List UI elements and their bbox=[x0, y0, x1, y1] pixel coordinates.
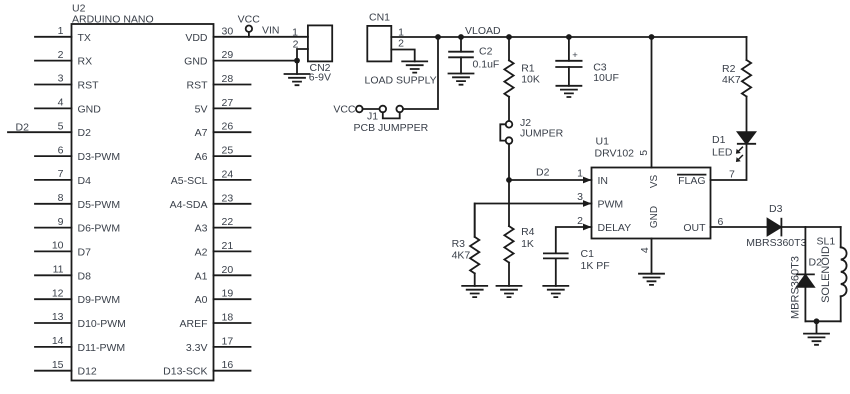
wire pin 3 RST bbox=[35, 73, 99, 92]
svg-text:VCC: VCC bbox=[333, 104, 356, 116]
svg-text:0.1uF: 0.1uF bbox=[473, 59, 500, 71]
IC U2 ARDUINO NANO bbox=[72, 3, 214, 381]
diode D2 MBRS360T3 flyback bbox=[790, 227, 823, 321]
svg-text:U1: U1 bbox=[596, 136, 610, 148]
svg-text:RX: RX bbox=[78, 56, 93, 68]
ground below R4 bbox=[497, 286, 522, 297]
svg-text:A7: A7 bbox=[195, 127, 208, 139]
svg-text:3: 3 bbox=[58, 73, 64, 85]
wire pin 5 D2 bbox=[8, 120, 91, 139]
svg-text:D2: D2 bbox=[536, 167, 550, 179]
wire pin 7 D4 bbox=[35, 168, 91, 187]
svg-text:23: 23 bbox=[222, 192, 234, 204]
IC U1 DRV102 bbox=[592, 136, 711, 239]
svg-text:JUMPER: JUMPER bbox=[520, 128, 564, 140]
svg-text:LOAD SUPPLY: LOAD SUPPLY bbox=[365, 75, 437, 87]
ground below R3 bbox=[462, 286, 487, 297]
svg-text:5: 5 bbox=[58, 120, 64, 132]
svg-text:D8: D8 bbox=[78, 270, 92, 282]
junction R1 on VLOAD bbox=[506, 34, 512, 40]
junction SL1 bottom to ground bbox=[814, 318, 820, 324]
wire U1 OUT pin 6 to D3 bbox=[711, 216, 768, 228]
svg-text:DELAY: DELAY bbox=[598, 222, 632, 234]
capacitor C1 1K PF bbox=[544, 248, 610, 286]
solenoid SL1 bbox=[817, 227, 847, 321]
svg-text:15: 15 bbox=[52, 359, 64, 371]
wire R2 to D1 bbox=[746, 97, 748, 133]
svg-text:GND: GND bbox=[649, 206, 660, 228]
svg-text:4: 4 bbox=[639, 247, 651, 253]
svg-text:A2: A2 bbox=[195, 246, 208, 258]
wire pin 22 A3 bbox=[195, 216, 251, 235]
wire pin 9 D6-PWM bbox=[35, 216, 120, 235]
junction C2 on VLOAD bbox=[458, 34, 464, 40]
resistor R2 4K7 bbox=[722, 60, 751, 97]
svg-text:RST: RST bbox=[78, 80, 100, 92]
svg-text:13: 13 bbox=[52, 311, 64, 323]
svg-text:10UF: 10UF bbox=[593, 72, 619, 84]
svg-text:D1: D1 bbox=[712, 134, 726, 146]
svg-text:12: 12 bbox=[52, 287, 64, 299]
svg-text:2: 2 bbox=[577, 215, 583, 227]
LED D1 bbox=[712, 132, 755, 162]
junction C3 on VLOAD bbox=[566, 34, 572, 40]
resistor R3 4K7 bbox=[452, 204, 480, 286]
wire pin 16 D13-SCK bbox=[163, 359, 250, 378]
svg-text:24: 24 bbox=[222, 168, 234, 180]
svg-text:18: 18 bbox=[222, 312, 234, 324]
wire pin 13 D10-PWM bbox=[35, 311, 126, 330]
svg-text:29: 29 bbox=[222, 49, 234, 61]
ground below C3 bbox=[556, 86, 581, 97]
wire pin 15 D12 bbox=[35, 359, 97, 378]
svg-text:PCB JUMPPER: PCB JUMPPER bbox=[354, 122, 429, 134]
wire pin 19 A0 bbox=[195, 288, 251, 307]
svg-text:1: 1 bbox=[292, 27, 298, 39]
ground below C2 bbox=[449, 74, 474, 85]
svg-text:FLAG: FLAG bbox=[678, 175, 705, 187]
wire D3 to SL1 bbox=[781, 226, 840, 228]
svg-text:OUT: OUT bbox=[683, 222, 706, 234]
svg-text:A4-SDA: A4-SDA bbox=[170, 199, 208, 211]
wire DELAY net to U1 pin 2 bbox=[556, 215, 592, 253]
svg-text:VLOAD: VLOAD bbox=[465, 25, 501, 37]
svg-text:17: 17 bbox=[222, 335, 234, 347]
svg-text:D2: D2 bbox=[16, 122, 30, 134]
svg-text:1: 1 bbox=[577, 168, 583, 180]
capacitor C3 10UF polarized bbox=[556, 37, 619, 86]
svg-text:1K PF: 1K PF bbox=[581, 260, 610, 272]
svg-text:R2: R2 bbox=[722, 63, 736, 75]
ground below CN2 bbox=[285, 61, 310, 86]
ground below C1 bbox=[543, 286, 568, 297]
svg-text:19: 19 bbox=[222, 288, 234, 300]
wire pin 12 D9-PWM bbox=[35, 287, 120, 306]
wire D1 to U1 FLAG pin 7 bbox=[711, 144, 747, 181]
svg-text:SL1: SL1 bbox=[817, 236, 836, 248]
svg-text:27: 27 bbox=[222, 97, 234, 109]
svg-text:MBRS360T3: MBRS360T3 bbox=[746, 237, 806, 249]
wire VIN net: pin30 VDD to CN2 pin1 bbox=[185, 25, 308, 44]
svg-text:30: 30 bbox=[222, 25, 234, 37]
svg-text:D3: D3 bbox=[769, 203, 783, 215]
svg-text:7: 7 bbox=[729, 169, 735, 181]
wire SL1 bottom bbox=[805, 320, 840, 322]
connector CN1 LOAD SUPPLY bbox=[365, 12, 437, 87]
svg-text:D4: D4 bbox=[78, 175, 92, 187]
wire pin 21 A2 bbox=[195, 240, 251, 259]
svg-text:7: 7 bbox=[58, 168, 64, 180]
wire pin 27 5V bbox=[195, 97, 251, 116]
power VCC symbol at pin30 bbox=[238, 14, 261, 37]
wire pin 26 A7 bbox=[195, 121, 251, 140]
wire U1 VS pin 5 to VLOAD bbox=[638, 37, 652, 168]
svg-text:CN1: CN1 bbox=[369, 12, 390, 24]
svg-text:6-9V: 6-9V bbox=[309, 72, 331, 84]
svg-text:D12: D12 bbox=[78, 366, 97, 378]
svg-text:GND: GND bbox=[184, 56, 208, 68]
svg-text:A3: A3 bbox=[195, 223, 208, 235]
svg-text:D7: D7 bbox=[78, 246, 92, 258]
wire pin 25 A6 bbox=[195, 145, 251, 164]
wire pin 17 3.3V bbox=[186, 335, 251, 354]
junction U1 VS on VLOAD bbox=[649, 34, 655, 40]
svg-text:5V: 5V bbox=[195, 103, 208, 115]
junction J1 riser on VLOAD bbox=[435, 34, 441, 40]
ground below CN1 bbox=[402, 61, 427, 72]
svg-text:RST: RST bbox=[187, 80, 209, 92]
svg-text:1K: 1K bbox=[521, 238, 534, 250]
wire pin 14 D11-PWM bbox=[35, 335, 125, 354]
svg-text:TX: TX bbox=[78, 32, 91, 44]
svg-text:D5-PWM: D5-PWM bbox=[78, 199, 121, 211]
svg-text:D6-PWM: D6-PWM bbox=[78, 223, 121, 235]
svg-text:D9-PWM: D9-PWM bbox=[78, 294, 121, 306]
svg-text:22: 22 bbox=[222, 216, 234, 228]
diode D3 MBRS360T3 bbox=[746, 203, 806, 249]
wire pin 20 A1 bbox=[195, 264, 251, 283]
svg-text:4: 4 bbox=[58, 97, 64, 109]
wire pin 18 AREF bbox=[179, 312, 250, 331]
wire pin 4 GND bbox=[35, 97, 101, 116]
svg-text:5: 5 bbox=[638, 150, 650, 156]
junction CN2 pin2 / pin29 GND bbox=[294, 58, 300, 64]
svg-text:R4: R4 bbox=[521, 226, 535, 238]
svg-text:2: 2 bbox=[58, 49, 64, 61]
wire pin 2 RX bbox=[35, 49, 92, 68]
power VCC at J1 bbox=[333, 104, 362, 116]
connector CN2 6-9V bbox=[292, 25, 332, 83]
jumper J2 JUMPER bbox=[500, 117, 563, 144]
svg-text:21: 21 bbox=[222, 240, 234, 252]
svg-text:10: 10 bbox=[52, 240, 64, 252]
svg-text:A0: A0 bbox=[195, 294, 208, 306]
svg-text:D13-SCK: D13-SCK bbox=[163, 366, 207, 378]
svg-text:AREF: AREF bbox=[179, 318, 207, 330]
svg-text:LED: LED bbox=[712, 146, 733, 158]
svg-text:A1: A1 bbox=[195, 270, 208, 282]
svg-text:VDD: VDD bbox=[185, 32, 208, 44]
svg-text:IN: IN bbox=[598, 175, 609, 187]
wire VLOAD corner down to R2 bbox=[746, 37, 748, 60]
svg-text:28: 28 bbox=[222, 73, 234, 85]
svg-text:8: 8 bbox=[58, 192, 64, 204]
svg-text:C2: C2 bbox=[479, 46, 493, 58]
svg-text:4K7: 4K7 bbox=[722, 74, 741, 86]
svg-text:A6: A6 bbox=[195, 151, 208, 163]
svg-text:1: 1 bbox=[58, 25, 64, 37]
wire pin 1 TX bbox=[35, 25, 91, 44]
svg-text:10K: 10K bbox=[521, 74, 540, 86]
svg-text:6: 6 bbox=[718, 216, 724, 228]
wire pin 10 D7 bbox=[35, 240, 91, 259]
wire J2 to IN junction bbox=[508, 144, 510, 180]
svg-text:J1: J1 bbox=[367, 111, 378, 123]
svg-text:2: 2 bbox=[398, 38, 404, 50]
svg-text:D10-PWM: D10-PWM bbox=[78, 318, 126, 330]
svg-text:VS: VS bbox=[649, 175, 660, 189]
wire pin 8 D5-PWM bbox=[35, 192, 120, 211]
svg-text:A5-SCL: A5-SCL bbox=[171, 175, 208, 187]
svg-text:11: 11 bbox=[53, 264, 64, 276]
svg-text:R1: R1 bbox=[521, 62, 535, 74]
svg-text:9: 9 bbox=[58, 216, 64, 228]
svg-text:D11-PWM: D11-PWM bbox=[78, 342, 126, 354]
wire pin29 GND to junction bbox=[184, 49, 297, 68]
svg-text:ARDUINO NANO: ARDUINO NANO bbox=[72, 14, 154, 26]
wire D2 net to U1 IN pin 1 bbox=[509, 167, 592, 184]
svg-text:14: 14 bbox=[52, 335, 64, 347]
svg-text:D2: D2 bbox=[78, 127, 92, 139]
wire pin 6 D3-PWM bbox=[35, 144, 120, 163]
junction D2 net (IN / J2 / R4) bbox=[506, 177, 512, 183]
svg-text:26: 26 bbox=[222, 121, 234, 133]
wire J1 to VLOAD rail bbox=[403, 37, 438, 109]
wire VLOAD rail from CN1 pin1 to R2 corner bbox=[391, 25, 746, 37]
svg-text:D3-PWM: D3-PWM bbox=[78, 151, 121, 163]
wire U1 GND pin 4 to ground bbox=[639, 239, 652, 274]
svg-text:3.3V: 3.3V bbox=[186, 342, 208, 354]
svg-text:16: 16 bbox=[222, 359, 234, 371]
svg-text:DRV102: DRV102 bbox=[595, 148, 635, 160]
svg-text:C1: C1 bbox=[581, 248, 595, 260]
svg-text:R3: R3 bbox=[452, 238, 466, 250]
svg-text:20: 20 bbox=[222, 264, 234, 276]
wire pin 11 D8 bbox=[35, 264, 91, 283]
svg-text:+: + bbox=[572, 50, 578, 61]
wire PWM net to U1 pin 3 bbox=[475, 191, 592, 235]
capacitor C2 0.1uF bbox=[449, 37, 499, 74]
svg-text:6: 6 bbox=[58, 144, 64, 156]
svg-text:GND: GND bbox=[78, 103, 102, 115]
svg-text:4K7: 4K7 bbox=[452, 249, 471, 261]
svg-text:PWM: PWM bbox=[598, 198, 624, 210]
svg-text:SOLENOID: SOLENOID bbox=[820, 246, 832, 303]
svg-text:3: 3 bbox=[577, 191, 583, 203]
svg-text:25: 25 bbox=[222, 145, 234, 157]
wire pin 24 A5-SCL bbox=[171, 168, 251, 187]
svg-text:VIN: VIN bbox=[262, 25, 280, 37]
resistor R4 1K bbox=[504, 180, 534, 286]
wire pin 23 A4-SDA bbox=[170, 192, 251, 211]
svg-text:MBRS360T3: MBRS360T3 bbox=[790, 256, 802, 319]
ground below SL1 bbox=[804, 321, 829, 345]
resistor R1 10K bbox=[504, 37, 539, 121]
ground below U1 pin 4 bbox=[639, 274, 664, 285]
wire pin 28 RST bbox=[187, 73, 251, 92]
jumper J1 PCB JUMPPER bbox=[354, 106, 429, 134]
svg-text:VCC: VCC bbox=[238, 14, 261, 26]
